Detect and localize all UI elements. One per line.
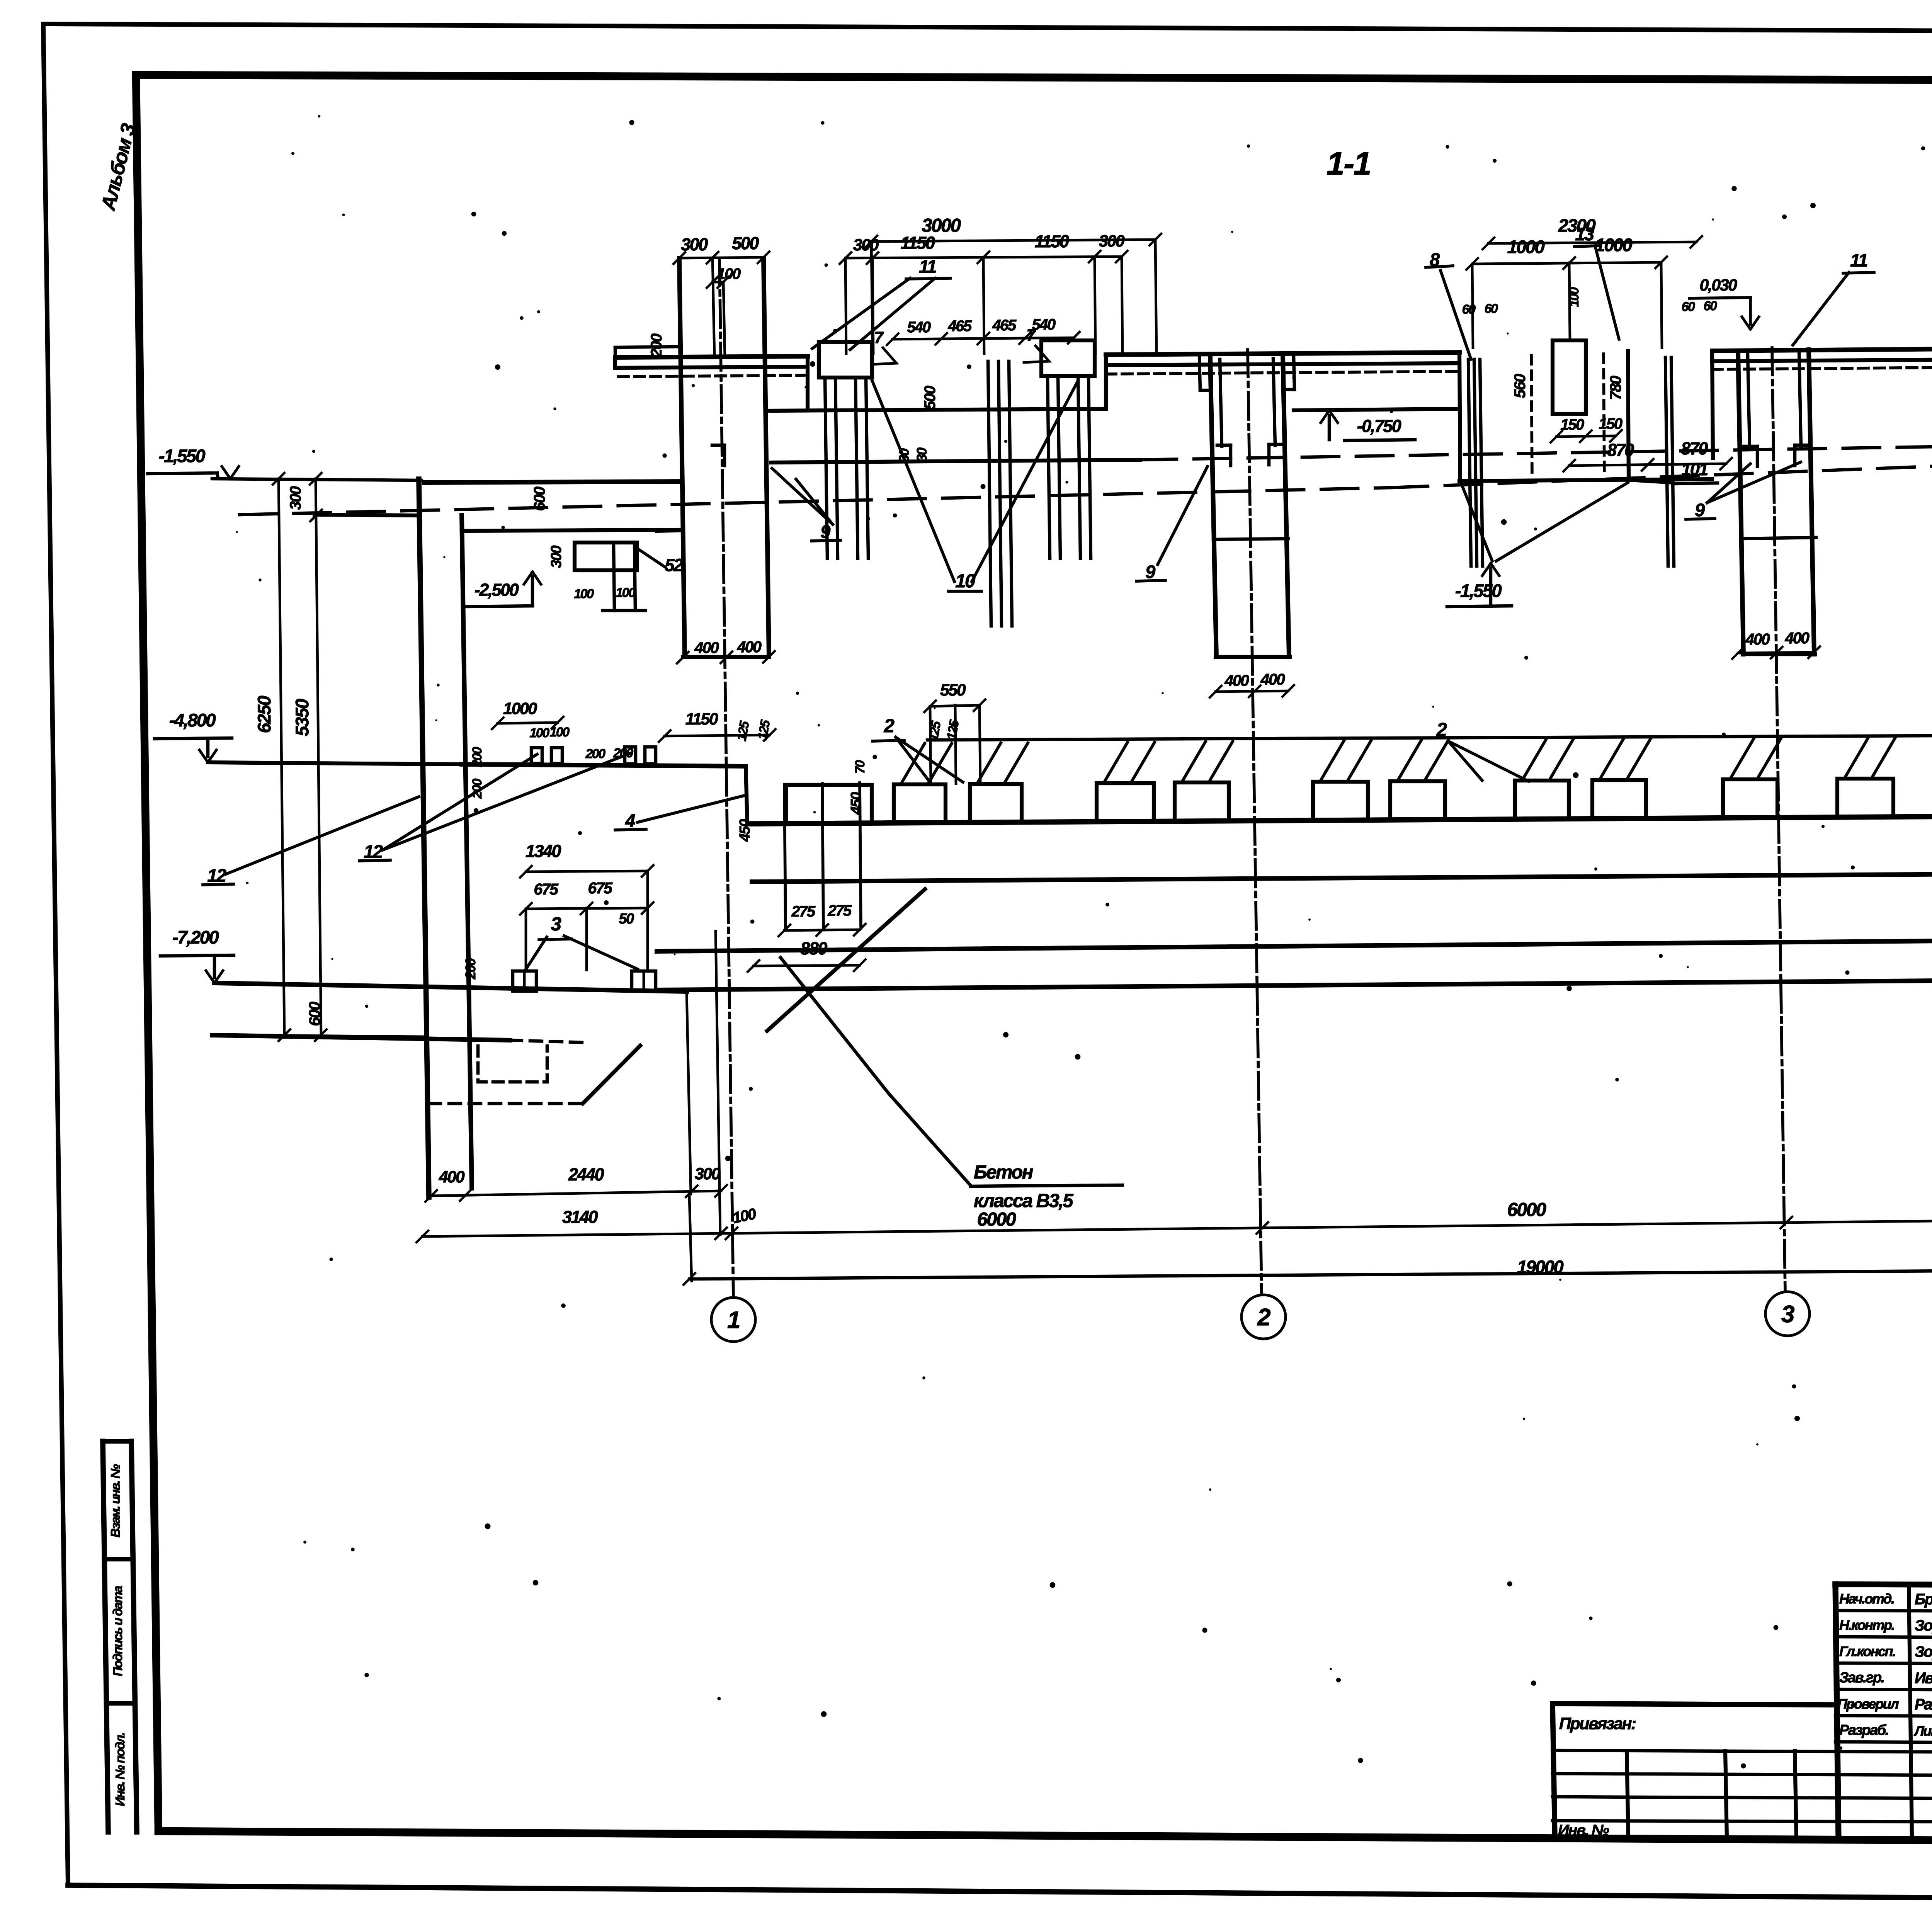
svg-text:101: 101 [1681, 459, 1708, 479]
column axis3 division [1741, 537, 1816, 539]
svg-text:6000: 6000 [977, 1209, 1016, 1230]
datum line -1.550 [212, 479, 421, 480]
post 12 a [531, 748, 542, 764]
svg-text:6250: 6250 [254, 696, 274, 733]
svg-text:3: 3 [551, 914, 561, 935]
block 52 left rod 2 [634, 543, 635, 611]
rebar rod [1078, 376, 1080, 558]
pit B dashed line right [1604, 354, 1604, 476]
svg-text:6000: 6000 [1507, 1199, 1546, 1220]
svg-text:60: 60 [1704, 299, 1717, 313]
svg-text:500: 500 [922, 386, 939, 409]
svg-text:класса В3,5: класса В3,5 [974, 1190, 1073, 1211]
svg-text:400: 400 [439, 1168, 465, 1186]
svg-text:Взам. инв. №: Взам. инв. № [108, 1464, 122, 1537]
svg-text:560: 560 [1511, 374, 1529, 398]
svg-text:400: 400 [1260, 670, 1286, 688]
svg-text:Иванова: Иванова [1915, 1670, 1932, 1687]
svg-text:100: 100 [616, 585, 636, 600]
opening A left wall [806, 356, 810, 410]
svg-text:100: 100 [529, 726, 549, 740]
svg-text:5350: 5350 [292, 699, 312, 736]
svg-text:9: 9 [1695, 500, 1705, 520]
column axis2 right face [1283, 355, 1289, 657]
hatch a block 5 [1182, 742, 1206, 782]
axis circle 3 [1765, 1292, 1810, 1336]
svg-text:150: 150 [1560, 416, 1584, 433]
leader 10 right [972, 381, 1078, 582]
svg-text:0,030: 0,030 [1699, 276, 1737, 294]
post 12 c [625, 747, 636, 764]
svg-text:Зорин: Зорин [1915, 1617, 1932, 1634]
hatch a block 2 [901, 743, 925, 784]
svg-text:450: 450 [848, 792, 864, 815]
inner frame bottom [158, 1831, 1932, 1844]
deck block 1 [786, 785, 872, 823]
svg-text:1150: 1150 [901, 233, 935, 253]
svg-text:2: 2 [1436, 719, 1447, 740]
foundation top [214, 983, 687, 992]
svg-text:540: 540 [907, 319, 930, 336]
column axis3 notch left [1756, 446, 1759, 466]
hatch b block 3 [1004, 743, 1028, 784]
svg-text:-0,750: -0,750 [1357, 416, 1401, 436]
hatch a block 3 [977, 743, 1001, 784]
svg-text:70: 70 [853, 760, 867, 774]
svg-text:300: 300 [548, 546, 565, 568]
extension 275 right [860, 783, 861, 928]
anchor block a [513, 971, 536, 991]
column axis2 inner line left [1220, 359, 1222, 446]
left beam top [424, 481, 682, 483]
hatch b block 10 [1757, 738, 1781, 779]
deck block 8 [1515, 781, 1569, 819]
inner frame top [136, 75, 1932, 82]
svg-text:780: 780 [1607, 376, 1624, 400]
svg-text:2: 2 [1257, 1304, 1270, 1331]
svg-text:Бетон: Бетон [974, 1162, 1033, 1183]
stamp strip left edge [103, 1441, 108, 1832]
rebar rod [866, 378, 868, 558]
svg-text:3140: 3140 [562, 1207, 598, 1227]
deck block 9 [1592, 780, 1646, 819]
opening A recess floor [769, 409, 1106, 411]
pit at column axis2 left [1200, 389, 1211, 392]
extension [713, 258, 714, 357]
svg-text:Привязан:: Привязан: [1559, 1714, 1636, 1733]
slab hidden line 3 [1712, 364, 1932, 369]
column axis3 inner line left [1748, 354, 1750, 447]
svg-text:Зав.гр.: Зав.гр. [1839, 1670, 1884, 1686]
svg-text:675: 675 [588, 879, 613, 897]
top slab segment 2 top edge [1106, 352, 1459, 355]
guide line 2 [927, 735, 1932, 740]
svg-text:Инв. № подл.: Инв. № подл. [113, 1733, 127, 1806]
svg-text:500: 500 [732, 233, 759, 253]
hatch a block 10 [1730, 738, 1754, 779]
rebar rod pit left [1474, 359, 1477, 566]
svg-text:Н.контр.: Н.контр. [1839, 1617, 1894, 1633]
pit B inner wall [1628, 351, 1629, 480]
excavation dashed [429, 1102, 583, 1105]
top slab segment 3 top edge / ground line [1712, 344, 1932, 351]
hatch b block 6 [1347, 741, 1371, 782]
svg-text:60: 60 [1462, 302, 1476, 317]
svg-text:4: 4 [625, 810, 635, 831]
rebar rod pit left [1468, 359, 1471, 566]
svg-text:Подпись и дата: Подпись и дата [111, 1586, 125, 1677]
foundation bottom dashed [510, 1040, 584, 1043]
block 52 left [575, 543, 637, 570]
foundation bottom [212, 1035, 510, 1040]
svg-text:Разраб.: Разраб. [1839, 1722, 1888, 1738]
anchor block b [632, 971, 656, 991]
svg-text:-1,550: -1,550 [1455, 580, 1502, 601]
column axis2 division [1213, 539, 1288, 539]
hatch a block 9 [1599, 739, 1623, 780]
hatch a block 4 [1104, 742, 1128, 783]
svg-text:400: 400 [1785, 629, 1810, 647]
svg-text:465: 465 [992, 317, 1016, 334]
leader to -1.550 [1461, 484, 1492, 561]
rebar rod pit left [1480, 359, 1483, 566]
platform step [746, 766, 747, 823]
svg-text:300: 300 [695, 1165, 721, 1183]
svg-text:-4,800: -4,800 [169, 710, 216, 730]
column axis3 notch right [1793, 445, 1797, 466]
slab hidden line 1 [618, 375, 808, 377]
deck block 5 [1175, 782, 1229, 821]
beam top dashed [1140, 441, 1932, 460]
deck block 3 [970, 784, 1022, 823]
extension [723, 282, 725, 357]
svg-text:275: 275 [827, 902, 852, 919]
svg-text:1150: 1150 [1035, 231, 1069, 251]
top slab segment 3 bottom edge [1712, 356, 1932, 361]
svg-text:30: 30 [914, 447, 930, 462]
pit B bottom [1459, 479, 1712, 481]
svg-text:600: 600 [306, 1002, 323, 1026]
svg-text:1-1: 1-1 [1327, 145, 1371, 182]
outer border left [43, 24, 68, 1885]
svg-text:150: 150 [1599, 415, 1622, 432]
top slab left end [613, 357, 617, 368]
svg-text:1000: 1000 [1595, 235, 1633, 255]
svg-text:450: 450 [737, 819, 753, 842]
left chain 5350 [316, 479, 321, 1036]
svg-text:9: 9 [1145, 561, 1155, 582]
tunnel floor bottom [657, 977, 1932, 990]
top slab segment 1 bottom edge [615, 367, 808, 368]
column axis1 base [683, 655, 769, 659]
formwork box 7 right [1041, 340, 1095, 376]
hatch b block 11 [1871, 738, 1895, 779]
svg-text:100: 100 [717, 265, 740, 282]
svg-text:540: 540 [1032, 316, 1055, 333]
svg-text:870: 870 [1607, 440, 1634, 460]
column axis3 inner line right [1799, 352, 1801, 446]
pit B dashed line left [1531, 355, 1532, 477]
deck block 11 [1837, 779, 1893, 817]
tunnel floor top [657, 937, 1932, 951]
svg-text:870: 870 [1681, 439, 1708, 458]
svg-text:60: 60 [1682, 299, 1695, 314]
left wall inner face [462, 515, 472, 1188]
svg-text:600: 600 [531, 486, 548, 511]
extension 300 right [716, 931, 720, 1235]
svg-text:60: 60 [1485, 301, 1498, 316]
post 12 d [645, 747, 656, 764]
outer border bottom [68, 1885, 1932, 1903]
svg-text:Нач.отд.: Нач.отд. [1839, 1591, 1894, 1607]
svg-text:19000: 19000 [1517, 1257, 1564, 1277]
svg-text:50: 50 [619, 911, 634, 927]
svg-text:300: 300 [287, 486, 304, 510]
axis line 2 [1248, 350, 1262, 1294]
slab left curb [615, 347, 679, 347]
svg-text:1000: 1000 [503, 699, 537, 718]
privyazan block left [1553, 1704, 1555, 1837]
extension 275 left [784, 784, 786, 930]
axis line 3 [1772, 348, 1785, 1292]
recess floor right of column axis2 [1294, 409, 1459, 410]
left ledge top [315, 515, 419, 515]
left wall outer face [419, 479, 429, 1197]
slab curb end [614, 347, 617, 357]
svg-text:52: 52 [665, 555, 683, 575]
hatch b block 4 [1131, 742, 1155, 783]
svg-text:-2,500: -2,500 [474, 580, 519, 600]
deck block 10 [1723, 779, 1777, 818]
left chain 6250 [279, 479, 284, 1036]
extension bottom left [247, 1035, 425, 1037]
deck block 2 [894, 784, 946, 823]
rebar rod pit right [1665, 357, 1668, 566]
pit at column axis2 right [1284, 388, 1294, 391]
column axis1 notch [723, 445, 726, 466]
svg-text:Радько: Радько [1915, 1696, 1932, 1713]
svg-text:100: 100 [574, 587, 594, 601]
formwork box 7 left [819, 342, 872, 378]
hatch a block 8 [1522, 740, 1546, 781]
stamp strip right edge [131, 1441, 137, 1832]
svg-text:400: 400 [694, 639, 719, 656]
-4.800 datum line [208, 762, 462, 764]
top slab segment 1 top edge [615, 356, 808, 357]
svg-text:1000: 1000 [1507, 236, 1545, 257]
svg-text:1340: 1340 [526, 841, 561, 861]
title block top [1835, 1584, 1932, 1587]
column axis3 base [1743, 652, 1815, 656]
beam top solid segment [771, 460, 1140, 463]
axis circle 1 [711, 1298, 755, 1342]
deck surface [752, 813, 1932, 824]
concrete leader [781, 957, 971, 1185]
svg-text:200: 200 [585, 747, 605, 761]
svg-text:Инв. №: Инв. № [1558, 1822, 1609, 1839]
slab hidden line 2 [1106, 371, 1459, 374]
column axis3 right face [1809, 350, 1814, 654]
svg-text:11: 11 [919, 256, 936, 277]
extension 275 mid [822, 784, 823, 929]
svg-text:200: 200 [470, 747, 485, 767]
svg-text:Зорин: Зорин [1915, 1643, 1932, 1660]
svg-text:Гл.консп.: Гл.консп. [1839, 1643, 1895, 1659]
hatch a block 7 [1397, 740, 1421, 781]
column axis2 notch right [1267, 444, 1271, 465]
rebar rod [1088, 376, 1091, 558]
opening A right wall [1104, 355, 1108, 409]
outer border top [43, 24, 1932, 33]
svg-text:880: 880 [800, 939, 827, 958]
column axis3 left face [1738, 352, 1743, 654]
svg-text:400: 400 [1225, 672, 1250, 689]
svg-text:2440: 2440 [568, 1165, 604, 1184]
hatch b block 7 [1424, 740, 1448, 781]
axis line 1 [719, 258, 733, 1298]
deck slab soffit [752, 871, 1932, 882]
svg-text:300: 300 [681, 235, 708, 254]
excavation slope short [583, 1046, 640, 1104]
block 52 left rod 1 [614, 543, 614, 611]
rebar rod [825, 378, 827, 558]
pit B right wall [1712, 351, 1713, 458]
svg-text:11: 11 [1850, 250, 1867, 270]
svg-text:300: 300 [1099, 232, 1125, 250]
svg-text:275: 275 [791, 903, 815, 920]
column axis1 corbel [657, 530, 683, 531]
title block left [1835, 1584, 1838, 1838]
svg-text:1150: 1150 [685, 710, 718, 728]
svg-text:3: 3 [1781, 1301, 1794, 1328]
svg-text:2: 2 [884, 716, 895, 736]
beam soffit dashed left [240, 488, 1391, 515]
deck block 4 [1097, 783, 1154, 822]
stamp strip divider 1 [104, 1557, 133, 1561]
leader 10 left [872, 381, 954, 582]
svg-text:675: 675 [534, 880, 559, 898]
insert 13 box [1553, 340, 1586, 414]
svg-text:200: 200 [463, 958, 478, 980]
svg-text:400: 400 [737, 638, 762, 656]
rebar rod [855, 378, 858, 558]
dashed pit box [478, 1046, 547, 1082]
post 12 b [551, 748, 562, 764]
svg-text:400: 400 [1745, 630, 1770, 648]
svg-text:465: 465 [947, 318, 972, 335]
hatch b block 8 [1549, 740, 1573, 781]
privyazan block top [1553, 1704, 1835, 1705]
column axis2 inner line right [1273, 359, 1275, 446]
stamp strip divider 2 [106, 1701, 135, 1706]
hatch b block 9 [1626, 739, 1650, 780]
column axis1 left face [679, 258, 685, 657]
top slab segment 2 bottom edge [1106, 363, 1459, 365]
hatch b block 2 [928, 743, 952, 784]
svg-text:100: 100 [549, 725, 570, 740]
inner frame left [136, 75, 158, 1831]
svg-text:200: 200 [648, 333, 665, 357]
svg-text:-1,550: -1,550 [159, 446, 206, 466]
left beam soffit [462, 530, 683, 531]
svg-text:550: 550 [940, 681, 966, 699]
hatch b block 5 [1209, 742, 1233, 782]
axis circle 2 [1242, 1295, 1286, 1339]
pit B left wall [1459, 352, 1460, 481]
hatch a block 11 [1844, 738, 1868, 779]
svg-text:Бродский: Бродский [1915, 1591, 1932, 1608]
column axis2 left face [1210, 357, 1216, 657]
rebar rod pit right [1671, 357, 1674, 566]
svg-text:13: 13 [1575, 224, 1594, 244]
deck block 7 [1390, 781, 1445, 820]
stamp strip top [103, 1439, 131, 1444]
svg-text:300: 300 [853, 236, 879, 254]
svg-text:-7,200: -7,200 [172, 927, 219, 947]
svg-text:Проверил: Проверил [1837, 1696, 1899, 1712]
platform surface [462, 764, 746, 766]
svg-text:Литвиненко: Литвиненко [1913, 1723, 1932, 1739]
rebar rod [1058, 376, 1060, 558]
beam soffit dashed right [1391, 445, 1932, 488]
rebar rod [835, 378, 838, 558]
rebar rod middle [988, 361, 991, 626]
column axis2 notch left [1229, 445, 1233, 466]
extension foundation right [687, 992, 691, 1194]
rebar rod middle [998, 361, 1002, 626]
deck block 6 [1313, 782, 1368, 820]
svg-text:100: 100 [1567, 287, 1582, 307]
rebar rod middle [1009, 361, 1012, 626]
hatch a block 6 [1320, 741, 1344, 782]
svg-text:12: 12 [207, 865, 226, 886]
slope diagonal long [767, 889, 925, 1031]
rebar rod [1048, 376, 1050, 558]
column axis2 base [1216, 655, 1290, 659]
column axis1 right face [764, 258, 769, 657]
svg-text:1: 1 [727, 1307, 740, 1333]
svg-text:12: 12 [364, 841, 383, 862]
svg-text:9: 9 [820, 521, 830, 542]
